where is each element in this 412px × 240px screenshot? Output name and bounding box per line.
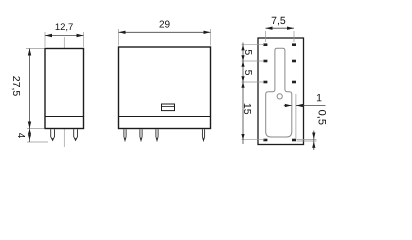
svg-text:5: 5 <box>242 70 254 76</box>
svg-text:29: 29 <box>159 19 171 30</box>
svg-text:15: 15 <box>241 103 253 115</box>
svg-text:4: 4 <box>15 133 26 139</box>
svg-text:1: 1 <box>316 92 322 104</box>
svg-text:27,5: 27,5 <box>10 76 22 97</box>
svg-text:7,5: 7,5 <box>271 15 286 27</box>
svg-text:0,5: 0,5 <box>315 110 327 125</box>
svg-text:5: 5 <box>242 49 254 55</box>
svg-text:12,7: 12,7 <box>55 22 74 33</box>
